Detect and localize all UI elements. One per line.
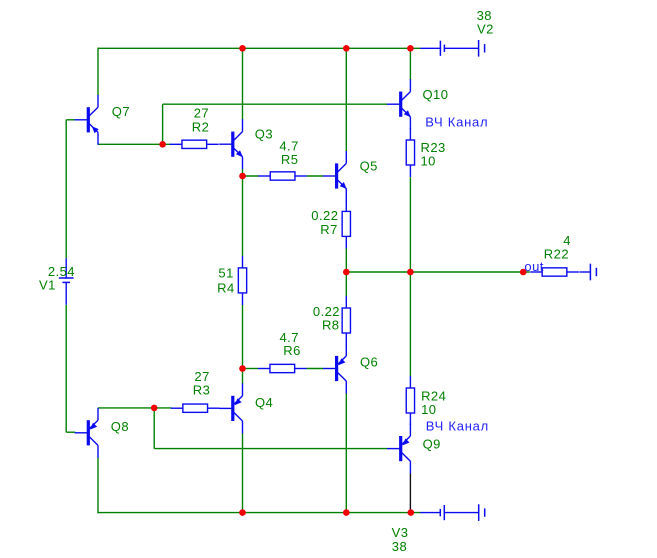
- label R24 value 10: [421, 402, 436, 417]
- wire rail to Q3 collector: [242, 48, 244, 120]
- label HF channel bottom: [426, 419, 489, 434]
- transistor Q9: [387, 424, 410, 474]
- resistor R8: [342, 296, 350, 345]
- label R4: [217, 280, 235, 295]
- svg-text:ВЧ Канал: ВЧ Канал: [426, 419, 489, 434]
- wire top rail: [98, 47, 421, 49]
- svg-text:Q4: Q4: [255, 395, 273, 410]
- wire Q7 emitter to node: [98, 143, 171, 145]
- resistor R3: [171, 404, 220, 412]
- wire V1 lower: [65, 305, 67, 433]
- wire R22 to ground: [579, 271, 590, 273]
- resistor R2: [170, 140, 219, 148]
- label V2 value 38: [477, 8, 492, 23]
- transistor Q5: [323, 151, 347, 201]
- svg-text:R6: R6: [283, 343, 301, 358]
- label R22 value 4: [563, 233, 571, 248]
- junction node out: [520, 269, 527, 276]
- label V3: [392, 525, 409, 540]
- label R22: [544, 247, 569, 262]
- label Q4: [255, 395, 273, 410]
- wire Q9 base feed: [154, 448, 387, 450]
- svg-text:R8: R8: [322, 318, 340, 333]
- svg-text:R4: R4: [217, 280, 235, 295]
- label R7 value 0.22: [311, 208, 338, 223]
- label R5 value 4.7: [279, 138, 298, 153]
- svg-text:V1: V1: [39, 277, 56, 292]
- label Q10: [423, 87, 449, 102]
- svg-text:out: out: [524, 259, 543, 274]
- label V2: [477, 21, 494, 36]
- label R2: [192, 119, 210, 134]
- junction bottom rail / Q4: [239, 509, 246, 516]
- label V3 value 38: [392, 539, 407, 554]
- wire Q10 base feed: [163, 103, 388, 105]
- wire rail to Q5 collector: [345, 48, 347, 152]
- svg-text:Q3: Q3: [255, 127, 273, 142]
- label Q7: [112, 104, 130, 119]
- svg-text:Q8: Q8: [111, 419, 129, 434]
- svg-text:Q5: Q5: [360, 159, 378, 174]
- svg-text:0.22: 0.22: [311, 208, 338, 223]
- label R23 value 10: [421, 153, 436, 168]
- svg-text:R22: R22: [544, 247, 569, 262]
- battery V1: [59, 258, 74, 305]
- battery V3: [420, 505, 478, 520]
- label R5: [281, 152, 299, 167]
- svg-text:51: 51: [218, 266, 233, 281]
- wire Q8 emitter to node: [98, 407, 171, 409]
- svg-text:R2: R2: [192, 119, 210, 134]
- svg-text:V3: V3: [392, 525, 409, 540]
- wire Q8 collector down: [97, 458, 99, 514]
- wire Q3 emitter to node: [242, 169, 244, 176]
- wire R23 to out rail: [409, 177, 411, 272]
- resistor R5: [258, 172, 307, 180]
- junction Q8 emitter node: [151, 405, 158, 412]
- wire bottom rail: [98, 512, 421, 514]
- label R4 value 51: [218, 266, 233, 281]
- transistor Q3: [219, 119, 243, 169]
- wire R6 to Q6 base: [306, 368, 323, 370]
- resistor R23: [406, 128, 414, 177]
- wire out rail left: [346, 271, 530, 273]
- junction top rail / Q5: [343, 45, 350, 52]
- label R23: [421, 140, 446, 155]
- transistor Q4: [219, 383, 242, 433]
- svg-text:ВЧ Канал: ВЧ Канал: [425, 115, 488, 130]
- transistor Q8: [75, 408, 98, 458]
- label R3 value 27: [194, 369, 209, 384]
- junction bottom rail / Q6: [343, 509, 350, 516]
- resistor R6: [258, 364, 307, 372]
- svg-text:V2: V2: [477, 21, 494, 36]
- ground bottom right: [479, 504, 485, 521]
- label R6 value 4.7: [279, 330, 298, 345]
- junction top rail / Q3: [239, 45, 246, 52]
- label Q6: [360, 355, 378, 370]
- wire Q7 base: [66, 119, 75, 121]
- transistor Q7: [75, 95, 99, 145]
- wire node B to R6: [243, 368, 259, 370]
- wire Q4 collector down: [242, 433, 244, 513]
- svg-text:Q9: Q9: [423, 437, 441, 452]
- wire R5 to Q5 base: [307, 175, 324, 177]
- label Q3: [255, 127, 273, 142]
- wire rail to Q10 collector: [409, 48, 411, 80]
- svg-text:R3: R3: [193, 382, 211, 397]
- resistor R4: [238, 256, 246, 305]
- label V1: [39, 277, 56, 292]
- svg-text:Q7: Q7: [112, 104, 130, 119]
- svg-text:Q6: Q6: [360, 355, 378, 370]
- junction Q7 emitter node: [159, 141, 166, 148]
- label R8 value 0.22: [313, 304, 340, 319]
- label out: [524, 259, 543, 274]
- label Q9: [423, 437, 441, 452]
- svg-text:R7: R7: [320, 222, 338, 237]
- battery V2: [420, 41, 478, 56]
- wire node riser: [162, 104, 164, 144]
- wire out rail to R8: [345, 272, 347, 296]
- junction out rail / R23-R24: [407, 269, 414, 276]
- label V1 value 2.54: [48, 264, 75, 279]
- label R6: [283, 343, 301, 358]
- svg-text:38: 38: [392, 539, 407, 554]
- svg-text:10: 10: [421, 402, 436, 417]
- junction bottom rail / Q9: [408, 509, 415, 516]
- wire Q6 collector down: [345, 393, 347, 512]
- ground top right: [479, 40, 485, 57]
- svg-text:R5: R5: [281, 152, 299, 167]
- transistor Q6: [323, 344, 346, 394]
- svg-text:Q10: Q10: [423, 87, 449, 102]
- wire Q7 collector to rail: [97, 48, 99, 96]
- resistor R24: [406, 376, 414, 425]
- wire node A riser: [153, 408, 155, 449]
- label R2 value 27: [194, 105, 209, 120]
- wire R4 to node B: [242, 305, 244, 369]
- wire Q8 base: [66, 431, 75, 433]
- wire node to R5: [243, 175, 259, 177]
- resistor R7: [342, 199, 350, 248]
- junction node B R4/R6/Q4: [239, 365, 246, 372]
- wire node to R4: [242, 176, 244, 256]
- label Q8: [111, 419, 129, 434]
- wire out rail to R24: [409, 272, 411, 376]
- label HF channel top: [425, 115, 488, 130]
- transistor Q10: [387, 79, 411, 129]
- junction top rail / Q10: [407, 45, 414, 52]
- label R7: [320, 222, 338, 237]
- wire Q9 collector black: [409, 473, 411, 512]
- label R24: [421, 389, 446, 404]
- svg-text:27: 27: [194, 105, 209, 120]
- ground at R22: [590, 264, 596, 281]
- wire R7 to out rail: [345, 248, 347, 272]
- resistor R22: [530, 268, 579, 276]
- label R8: [322, 318, 340, 333]
- junction node Q3/R4/R5: [239, 173, 246, 180]
- wire V1 upper: [65, 120, 67, 258]
- label Q5: [360, 159, 378, 174]
- junction out rail / R7-R8: [343, 269, 350, 276]
- svg-text:10: 10: [421, 153, 436, 168]
- label R3: [193, 382, 211, 397]
- wire node B to Q4: [242, 369, 244, 384]
